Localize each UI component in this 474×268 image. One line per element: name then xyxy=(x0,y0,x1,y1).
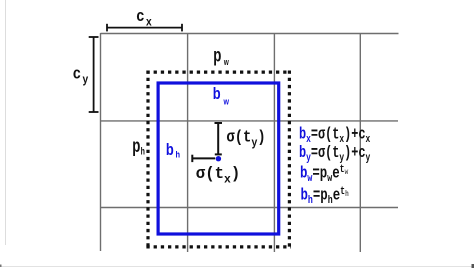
grid horizontal line bottom xyxy=(101,207,399,209)
grid horizontal line middle xyxy=(101,120,399,122)
center point (blue dot) xyxy=(216,156,221,161)
label b_h xyxy=(166,141,180,159)
text sigma(t_x) xyxy=(196,165,240,187)
faint figure edge bottom xyxy=(0,266,474,268)
label c_y xyxy=(73,65,89,86)
faint figure edge left xyxy=(5,0,7,245)
sigma(t_x) measure line xyxy=(192,155,215,162)
grid vertical line 2 xyxy=(187,33,189,252)
equation b_h = p_h e^t_h xyxy=(301,185,349,206)
sigma(t_y) measure line xyxy=(215,123,223,154)
grid vertical line 3 xyxy=(273,33,275,252)
corner mark bottom-right xyxy=(472,264,474,268)
grid vertical line 4 xyxy=(359,33,361,252)
c_y measurement bracket xyxy=(89,37,99,112)
predicted box b (blue rectangle) xyxy=(158,83,279,234)
label b_w xyxy=(213,86,230,107)
label p_h xyxy=(132,136,145,157)
grid horizontal line top xyxy=(101,33,399,35)
label p_w xyxy=(213,45,229,67)
label c_x xyxy=(136,7,152,28)
text sigma(t_y) xyxy=(226,127,265,150)
equation b_w = p_w e^t_w xyxy=(300,163,349,184)
grid vertical line 1 xyxy=(100,33,102,251)
anchor box p (dotted rectangle) xyxy=(146,71,291,249)
equation b_x = sigma(t_x)+c_x xyxy=(299,126,370,146)
equation b_y = sigma(t_y)+c_y xyxy=(299,144,370,164)
corner mark bottom-left xyxy=(0,265,2,268)
c_x measurement bracket xyxy=(107,24,182,32)
